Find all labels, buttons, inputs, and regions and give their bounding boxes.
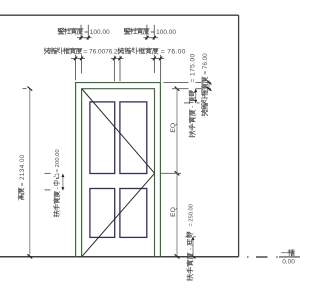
svg-text:= 76.00: = 76.00 <box>161 49 186 56</box>
svg-text:= 76.00: = 76.00 <box>83 49 105 56</box>
svg-text:= 250.00: = 250.00 <box>188 204 194 226</box>
svg-text:= 100.00: = 100.00 <box>84 29 110 36</box>
svg-text:0.00: 0.00 <box>282 258 295 265</box>
svg-text:= 175.00: = 175.00 <box>190 53 197 82</box>
svg-text:EQ: EQ <box>170 207 177 217</box>
svg-text:= 100.00: = 100.00 <box>151 29 177 36</box>
svg-text:-: - <box>190 106 197 108</box>
svg-text:= 2134.00: = 2134.00 <box>19 154 26 186</box>
svg-text:EQ: EQ <box>170 123 177 133</box>
svg-text:= 200.00: = 200.00 <box>55 149 61 173</box>
svg-text:= 76.00: = 76.00 <box>202 53 209 75</box>
svg-text:-: - <box>54 187 61 189</box>
svg-text:76.20: 76.20 <box>105 49 121 56</box>
svg-text:-: - <box>187 248 194 250</box>
